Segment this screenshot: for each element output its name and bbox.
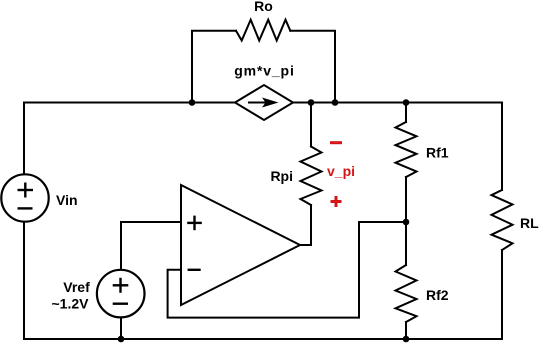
svg-text:RL: RL [520,215,539,231]
op-amp plus input marker [187,216,202,231]
Vref minus sign [113,303,128,305]
resistor Rf1 [396,122,417,177]
voltage source Vin (circle) [1,174,48,221]
Vref plus sign [113,278,129,293]
wire top horizontal net [24,102,502,104]
wire Rf2 lower lead [405,322,407,339]
wire bottom horizontal net [24,338,502,340]
label v_pi minus polarity (red) [330,141,342,144]
junction node at Rf1 / top wire [403,99,410,106]
svg-text:Rf1: Rf1 [426,145,449,161]
junction node at Vref / bottom wire [118,336,125,343]
Vin minus sign [18,207,33,209]
wire left branch lower [23,222,25,339]
wire Rf1 lower lead [405,177,407,222]
resistor Ro [236,20,290,41]
svg-text:Ro: Ro [254,0,273,14]
wire Rf1 upper lead [405,103,407,123]
wire Rpi lower lead to op-amp output [300,205,311,245]
wire Rf2 upper lead [405,222,407,265]
resistor Rpi [301,147,322,206]
wire Ro left leg [192,31,236,103]
wire Ro right leg [290,31,335,103]
wire right branch upper (to RL) [501,103,503,191]
label v_pi plus polarity (red) [331,196,342,207]
svg-text:Vin: Vin [56,192,78,208]
wire op-amp inverting feedback loop [168,222,406,318]
wire Rpi upper lead [310,103,312,147]
junction node at Rf2 / bottom wire [403,336,410,343]
junction node at Rpi / top wire [308,99,315,106]
wire op-amp noninverting input [121,222,181,271]
svg-text:Rf2: Rf2 [426,287,449,303]
junction node at Ro right / top wire [332,99,339,106]
voltage source Vref (circle) [97,270,145,318]
wire left branch upper [23,103,25,176]
wire Vref lower lead [120,318,122,340]
resistor Rf2 [396,265,417,322]
svg-text:Rpi: Rpi [270,168,293,184]
svg-text:~1.2V: ~1.2V [52,296,90,312]
arrow inside current source [248,98,279,108]
svg-text:v_pi: v_pi [327,163,355,179]
svg-text:Vref: Vref [63,279,90,295]
op-amp U1 [181,185,300,305]
dependent current source gm*v_pi (diamond) [235,85,293,120]
junction node at Rf1-Rf2 / feedback [403,219,410,226]
junction node at Ro left / top wire [189,99,196,106]
wire right branch lower (from RL) [501,250,503,339]
op-amp minus input marker [188,269,201,271]
Vin plus sign [18,183,34,198]
resistor RL [492,190,513,250]
svg-text:gm*v_pi: gm*v_pi [234,63,294,79]
